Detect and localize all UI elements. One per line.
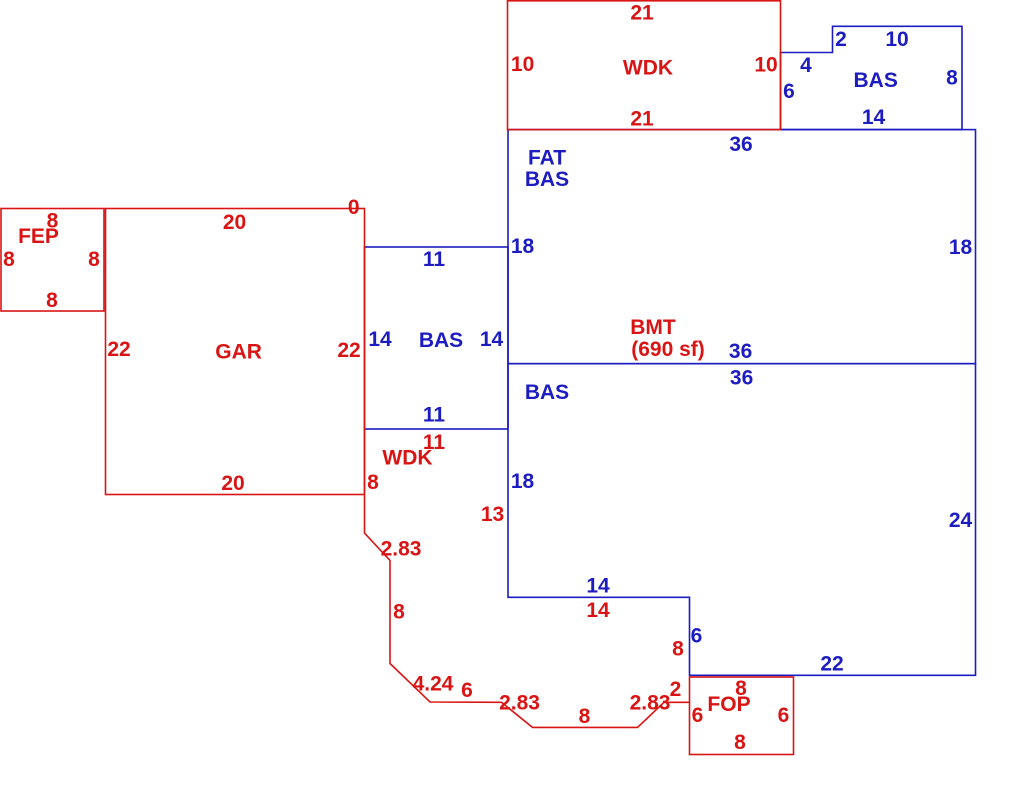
svg-text:0: 0: [348, 196, 360, 219]
svg-text:21: 21: [630, 2, 654, 25]
svg-text:6: 6: [692, 704, 704, 727]
svg-text:FEP: FEP: [18, 225, 59, 248]
svg-text:4: 4: [800, 54, 812, 77]
svg-text:2: 2: [670, 678, 682, 701]
svg-text:22: 22: [107, 338, 130, 361]
svg-text:8: 8: [579, 705, 591, 728]
svg-text:36: 36: [729, 133, 752, 156]
svg-text:10: 10: [511, 53, 534, 76]
svg-text:BMT: BMT: [630, 316, 676, 339]
svg-text:13: 13: [481, 503, 504, 526]
svg-text:11: 11: [423, 404, 446, 427]
svg-text:22: 22: [337, 339, 360, 362]
svg-text:(690 sf): (690 sf): [631, 338, 705, 361]
svg-text:11: 11: [423, 248, 446, 271]
svg-text:14: 14: [368, 328, 392, 351]
svg-text:8: 8: [672, 638, 684, 661]
svg-text:24: 24: [949, 509, 973, 532]
svg-text:6: 6: [691, 625, 703, 648]
svg-text:18: 18: [511, 235, 535, 258]
svg-text:8: 8: [46, 289, 58, 312]
svg-text:6: 6: [783, 80, 795, 103]
svg-text:BAS: BAS: [525, 168, 569, 191]
svg-text:BAS: BAS: [525, 381, 569, 404]
svg-text:20: 20: [221, 472, 244, 495]
svg-text:FAT: FAT: [528, 147, 566, 170]
svg-text:FOP: FOP: [707, 693, 750, 716]
svg-text:BAS: BAS: [419, 329, 463, 352]
svg-text:14: 14: [586, 575, 610, 598]
svg-text:8: 8: [367, 471, 379, 494]
svg-text:6: 6: [778, 704, 790, 727]
svg-text:14: 14: [586, 599, 610, 622]
svg-text:10: 10: [754, 54, 777, 77]
svg-text:8: 8: [734, 731, 746, 754]
svg-text:20: 20: [223, 211, 246, 234]
svg-text:8: 8: [88, 248, 100, 271]
svg-text:8: 8: [946, 67, 958, 90]
svg-text:2.83: 2.83: [381, 538, 422, 561]
svg-text:6: 6: [461, 679, 473, 702]
svg-text:4.24: 4.24: [413, 673, 454, 696]
svg-text:36: 36: [729, 340, 752, 363]
svg-text:8: 8: [393, 601, 405, 624]
svg-text:14: 14: [480, 328, 504, 351]
svg-text:18: 18: [511, 470, 535, 493]
svg-text:GAR: GAR: [215, 341, 262, 364]
svg-text:21: 21: [630, 108, 654, 131]
svg-text:WDK: WDK: [623, 57, 673, 80]
svg-text:BAS: BAS: [854, 69, 898, 92]
svg-text:14: 14: [862, 106, 886, 129]
svg-text:8: 8: [3, 248, 15, 271]
svg-text:WDK: WDK: [382, 447, 432, 470]
svg-text:2: 2: [835, 28, 847, 51]
svg-text:22: 22: [820, 653, 843, 676]
svg-text:18: 18: [949, 236, 973, 259]
svg-text:36: 36: [730, 367, 753, 390]
svg-text:2.83: 2.83: [630, 692, 671, 715]
svg-text:10: 10: [885, 28, 908, 51]
svg-text:2.83: 2.83: [499, 692, 540, 715]
